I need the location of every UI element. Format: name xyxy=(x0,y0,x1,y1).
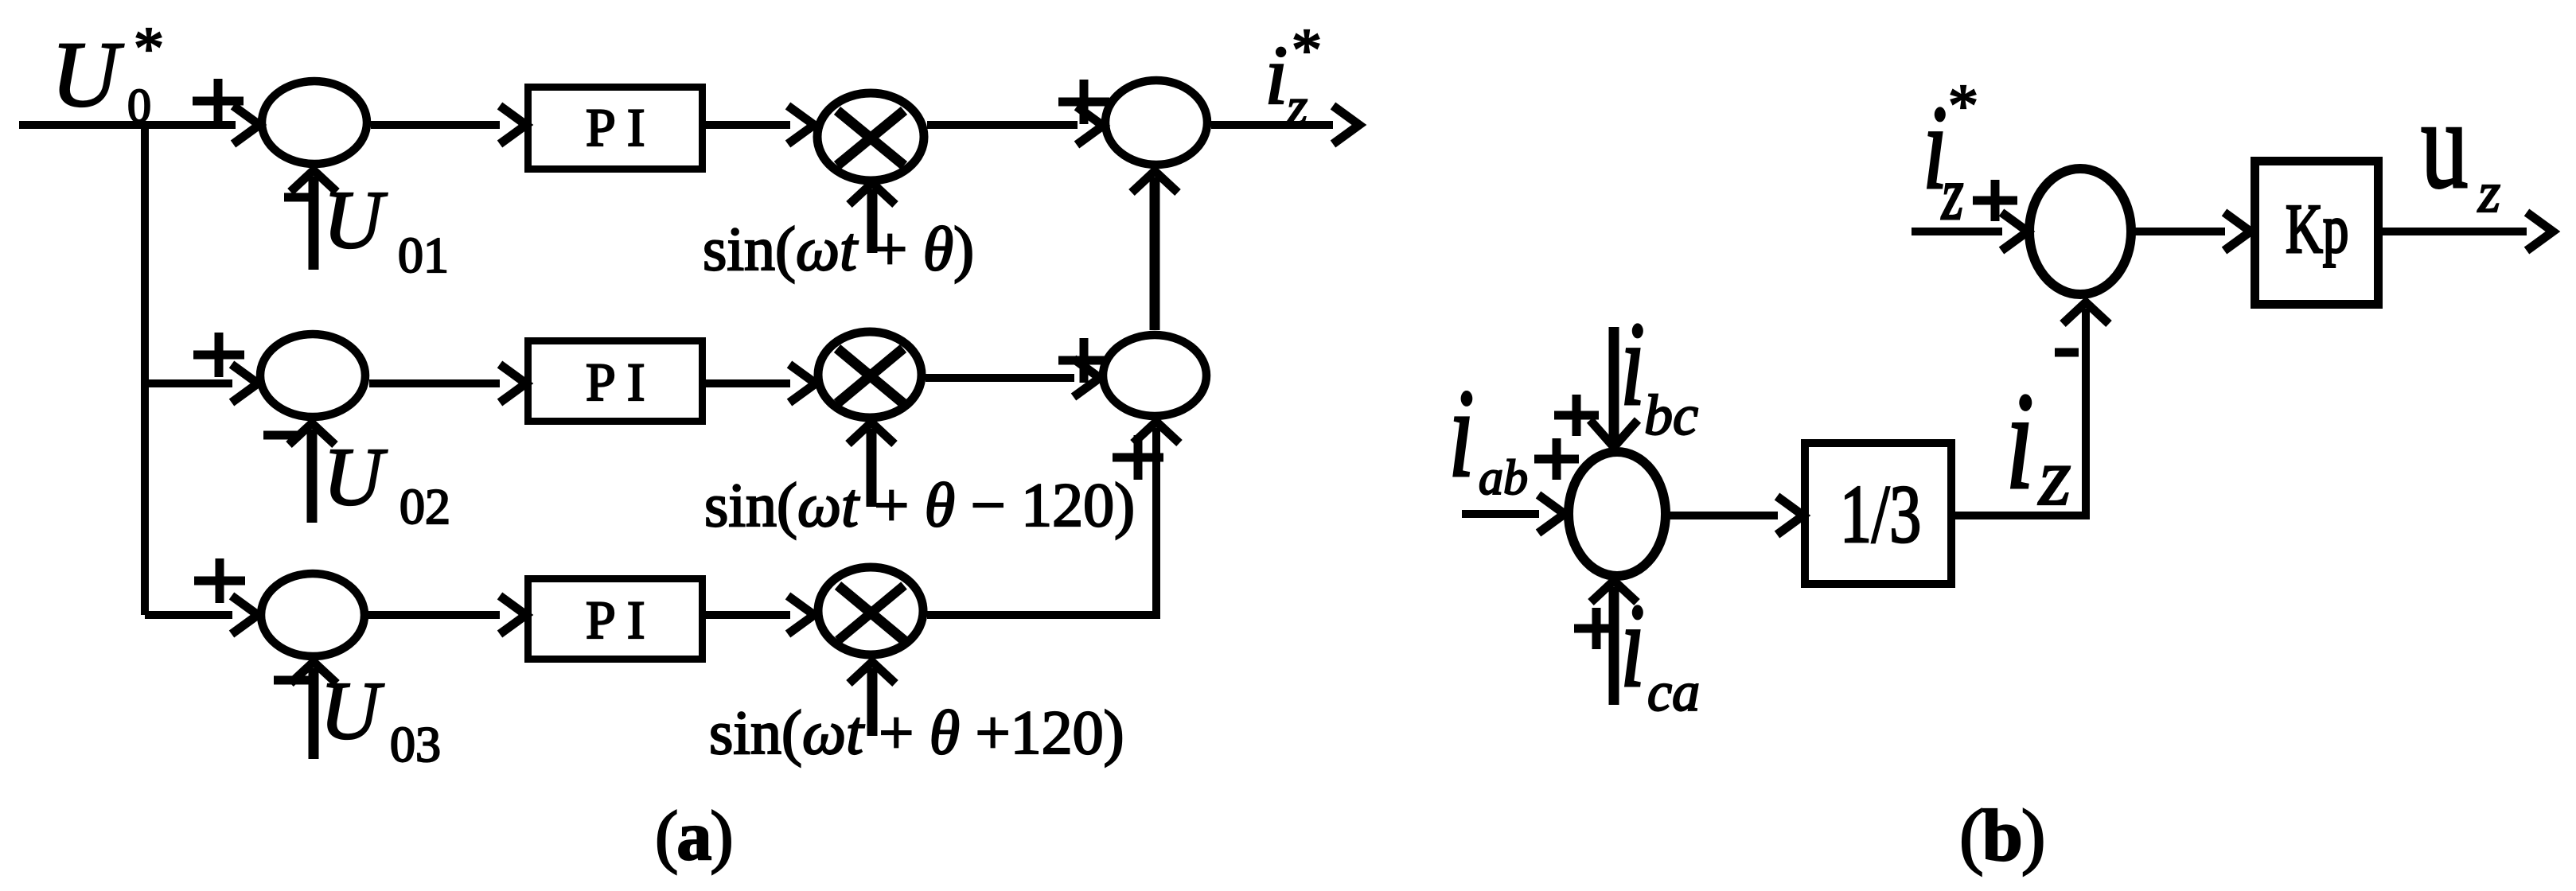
label ibc xyxy=(1620,297,1698,447)
wire iab input xyxy=(1462,510,1539,518)
wire Kp output xyxy=(2383,228,2527,235)
svg-text:U: U xyxy=(51,22,124,126)
block PI2 xyxy=(528,341,703,422)
svg-text:01: 01 xyxy=(398,227,449,283)
plus sign s2 bottom input xyxy=(1113,435,1163,480)
summing junction s2 xyxy=(1103,335,1206,416)
block 1/3 xyxy=(1805,443,1951,584)
svg-text:z: z xyxy=(1941,152,1963,235)
svg-text:z: z xyxy=(1286,77,1307,136)
wire b1 to Kp xyxy=(2135,228,2225,235)
wire PI1 to m1 xyxy=(706,121,790,129)
wire branch vertical xyxy=(141,121,149,615)
svg-text:i: i xyxy=(2005,364,2034,518)
svg-text:z: z xyxy=(2477,161,2500,224)
svg-text:ca: ca xyxy=(1647,662,1700,723)
svg-text:02: 02 xyxy=(399,478,450,535)
label iz xyxy=(2005,364,2071,523)
svg-text:PI: PI xyxy=(586,589,656,650)
multiplier m3 xyxy=(818,567,923,655)
svg-text:i: i xyxy=(1620,578,1645,712)
label U02 xyxy=(323,431,450,535)
wire a3 to PI3 xyxy=(368,611,500,619)
svg-text:Kp: Kp xyxy=(2286,190,2348,268)
plus sign row1 input xyxy=(193,79,244,123)
label sin3 xyxy=(709,698,1124,767)
svg-text:u: u xyxy=(2421,73,2469,215)
svg-text:z: z xyxy=(2037,431,2071,523)
arrow sin3 input xyxy=(867,668,878,736)
wire s2 to s1 vertical xyxy=(1150,177,1160,330)
wire input row1 xyxy=(19,121,236,129)
summing junction s1 xyxy=(1105,80,1207,165)
plus sign row3 input xyxy=(194,558,245,603)
minus sign iz feedback xyxy=(2055,348,2079,357)
svg-text:*: * xyxy=(1292,17,1322,84)
minus sign U01 xyxy=(284,193,310,202)
wire PI2 to m2 xyxy=(706,379,790,387)
svg-text:sin(ωt + θ +120): sin(ωt + θ +120) xyxy=(709,698,1124,767)
label U01 xyxy=(323,174,449,283)
arrow U01 input xyxy=(309,177,319,270)
wire m3 to s2 bottom xyxy=(927,428,1156,615)
label iab xyxy=(1448,364,1528,505)
label ica xyxy=(1620,578,1700,723)
svg-text:ab: ab xyxy=(1479,451,1528,505)
plus sign iz* xyxy=(1973,180,2017,221)
arrow sin1 input xyxy=(867,189,878,253)
svg-text:PI: PI xyxy=(586,97,656,158)
plus sign ibc xyxy=(1554,395,1599,436)
wire b2 to box13 xyxy=(1670,512,1778,519)
arrow ibc input xyxy=(1609,327,1619,441)
wire a1 to PI1 xyxy=(371,121,500,129)
svg-text:i: i xyxy=(1620,297,1645,430)
multiplier m2 xyxy=(818,332,922,418)
plus sign s2 left input xyxy=(1058,338,1109,383)
label sin1 xyxy=(703,214,974,283)
svg-text:bc: bc xyxy=(1644,383,1698,447)
summing junction a3 xyxy=(261,574,364,656)
wire s1 output xyxy=(1211,121,1333,129)
svg-text:U: U xyxy=(323,174,388,266)
wire input row3 xyxy=(145,611,232,619)
svg-text:*: * xyxy=(134,15,164,82)
arrow ica input xyxy=(1609,587,1619,705)
svg-text:i: i xyxy=(1265,29,1288,122)
label iz* output xyxy=(1265,17,1322,136)
arrow U02 input xyxy=(307,430,318,523)
svg-text:i: i xyxy=(1448,364,1475,504)
label U03 xyxy=(320,665,441,772)
summing junction a2 xyxy=(260,334,365,417)
label uz output xyxy=(2421,73,2500,224)
plus sign row2 input xyxy=(193,333,244,377)
summing junction b1 xyxy=(2029,169,2131,294)
summing junction a1 xyxy=(262,81,367,164)
svg-text:sin(ωt + θ − 120): sin(ωt + θ − 120) xyxy=(704,470,1135,539)
summing junction b2 xyxy=(1569,452,1666,576)
label sin2 xyxy=(704,470,1135,539)
wire input row2 xyxy=(145,379,232,387)
svg-text:(b): (b) xyxy=(1959,795,2044,876)
wire PI3 to m3 xyxy=(706,611,790,619)
label (b) xyxy=(1959,795,2044,876)
svg-text:03: 03 xyxy=(390,716,441,772)
plus sign ica xyxy=(1574,608,1619,649)
wire iz* input xyxy=(1912,228,2002,235)
label iz* reference xyxy=(1923,72,1978,235)
label (a) xyxy=(655,798,732,875)
multiplier m1 xyxy=(817,93,924,181)
wire box13 to b1 xyxy=(1955,309,2086,516)
plus sign iab xyxy=(1534,438,1579,480)
node U0* input label xyxy=(51,15,164,132)
svg-text:1/3: 1/3 xyxy=(1840,469,1921,560)
plus sign s1 input xyxy=(1058,80,1109,124)
svg-text:U: U xyxy=(320,665,384,757)
svg-text:U: U xyxy=(323,431,388,523)
svg-text:*: * xyxy=(1948,72,1978,139)
arrow U03 input xyxy=(309,668,319,759)
svg-text:(a): (a) xyxy=(655,798,732,875)
minus sign U02 xyxy=(263,431,300,440)
wire m1 to s1 xyxy=(927,121,1078,129)
wire m2 to s2 xyxy=(926,374,1074,382)
svg-text:PI: PI xyxy=(586,352,656,412)
block PI3 xyxy=(528,579,703,659)
wire a2 to PI2 xyxy=(369,379,500,387)
block PI1 xyxy=(528,88,703,169)
minus sign U03 xyxy=(274,676,310,685)
svg-text:sin(ωt + θ): sin(ωt + θ) xyxy=(703,214,974,283)
arrow sin2 input xyxy=(867,429,877,507)
block Kp xyxy=(2255,161,2379,305)
